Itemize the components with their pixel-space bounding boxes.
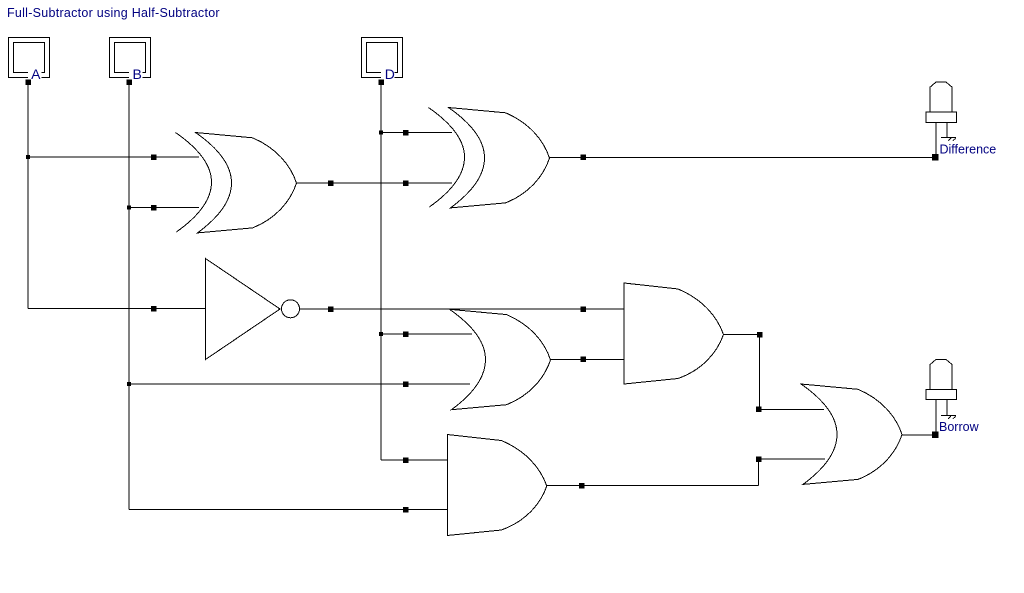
junction dot B / U1 input 2	[127, 206, 131, 210]
pin square XOR U1 output	[328, 180, 334, 186]
pin square XOR U2 output	[580, 155, 586, 161]
not-gate U3	[206, 259, 300, 360]
svg-text:Difference: Difference	[940, 142, 997, 156]
junction dot D / U4 input 1	[379, 332, 383, 336]
wire OR U7 output to LED Borrow	[899, 434, 935, 436]
svg-text:A: A	[31, 66, 41, 82]
or-gate U7	[801, 384, 902, 484]
or-gate U4	[450, 309, 551, 409]
svg-text:B: B	[133, 66, 142, 82]
pin square XOR U2 input 1	[403, 130, 409, 136]
input switch B	[110, 38, 151, 85]
pin square NOT U3 input	[151, 306, 157, 312]
pin square OR U4 input 2	[403, 381, 409, 387]
xor-gate U1	[176, 133, 297, 233]
junction dot D / U2 input 1	[379, 131, 383, 135]
and-gate U5	[624, 283, 724, 384]
wire AND U6 output horizontal	[547, 485, 759, 487]
pin square OR U7 output / LED Borrow junction	[932, 432, 939, 439]
pin square OR U7 input 1	[756, 407, 762, 413]
wire AND U5 output vertical	[759, 335, 761, 410]
LED Borrow	[926, 360, 957, 435]
wire XOR U1 output to XOR U2 input 2	[297, 182, 453, 184]
wire A to NOT U3 input	[28, 308, 206, 310]
wire D to XOR U2 input 1	[381, 132, 452, 134]
pin square OR U7 input 2	[756, 456, 762, 462]
pin square AND U5 output	[757, 332, 763, 338]
wire AND U5 output horizontal	[724, 334, 760, 336]
junction dot B / U4 input 2	[127, 382, 131, 386]
pin square LED Difference junction	[932, 154, 939, 161]
wire OR U4 output to AND U5 input 2	[548, 358, 625, 360]
pin square AND U6 input 2	[403, 507, 409, 513]
wire to OR U7 input 1	[760, 408, 825, 410]
svg-text:Full-Subtractor using Half-Sub: Full-Subtractor using Half-Subtractor	[7, 6, 220, 20]
wire B to OR U4 input 2	[129, 383, 470, 385]
wire NOT U3 output to AND U5 input 1	[300, 308, 625, 310]
pin square OR U4 output / AND U5 input 2	[580, 357, 586, 363]
wire AND U6 output vertical	[758, 459, 760, 486]
LED Difference	[926, 82, 957, 157]
wire B to AND U6 input 2	[129, 509, 448, 511]
pin square AND U5 input 1	[580, 306, 586, 312]
and-gate U6	[447, 435, 547, 536]
wire D to AND U6 input 1	[381, 459, 448, 461]
pin square OR U4 input 1	[403, 331, 409, 337]
wire to OR U7 input 2	[759, 458, 826, 460]
wire D to OR U4 input 1	[381, 333, 472, 335]
wire D vertical	[380, 85, 382, 461]
input switch A	[9, 38, 50, 85]
input switch D	[362, 38, 403, 85]
svg-text:D: D	[385, 66, 395, 82]
wire B vertical	[128, 84, 130, 510]
wire A to XOR U1 input 1	[28, 156, 199, 158]
junction dot A / U1 input 1	[26, 155, 30, 159]
xor-gate U2	[429, 108, 550, 208]
pin square XOR U1 input 1	[151, 154, 157, 160]
wire A vertical	[27, 85, 29, 309]
pin square AND U6 output	[579, 483, 585, 489]
pin square XOR U2 input 2	[403, 180, 409, 186]
pin square XOR U1 input 2	[151, 205, 157, 211]
wire B to XOR U1 input 2	[129, 207, 199, 209]
svg-text:Borrow: Borrow	[939, 420, 980, 434]
wire XOR U2 output to LED Difference	[549, 156, 936, 158]
pin square NOT U3 output	[328, 306, 334, 312]
pin square AND U6 input 1	[403, 457, 409, 463]
